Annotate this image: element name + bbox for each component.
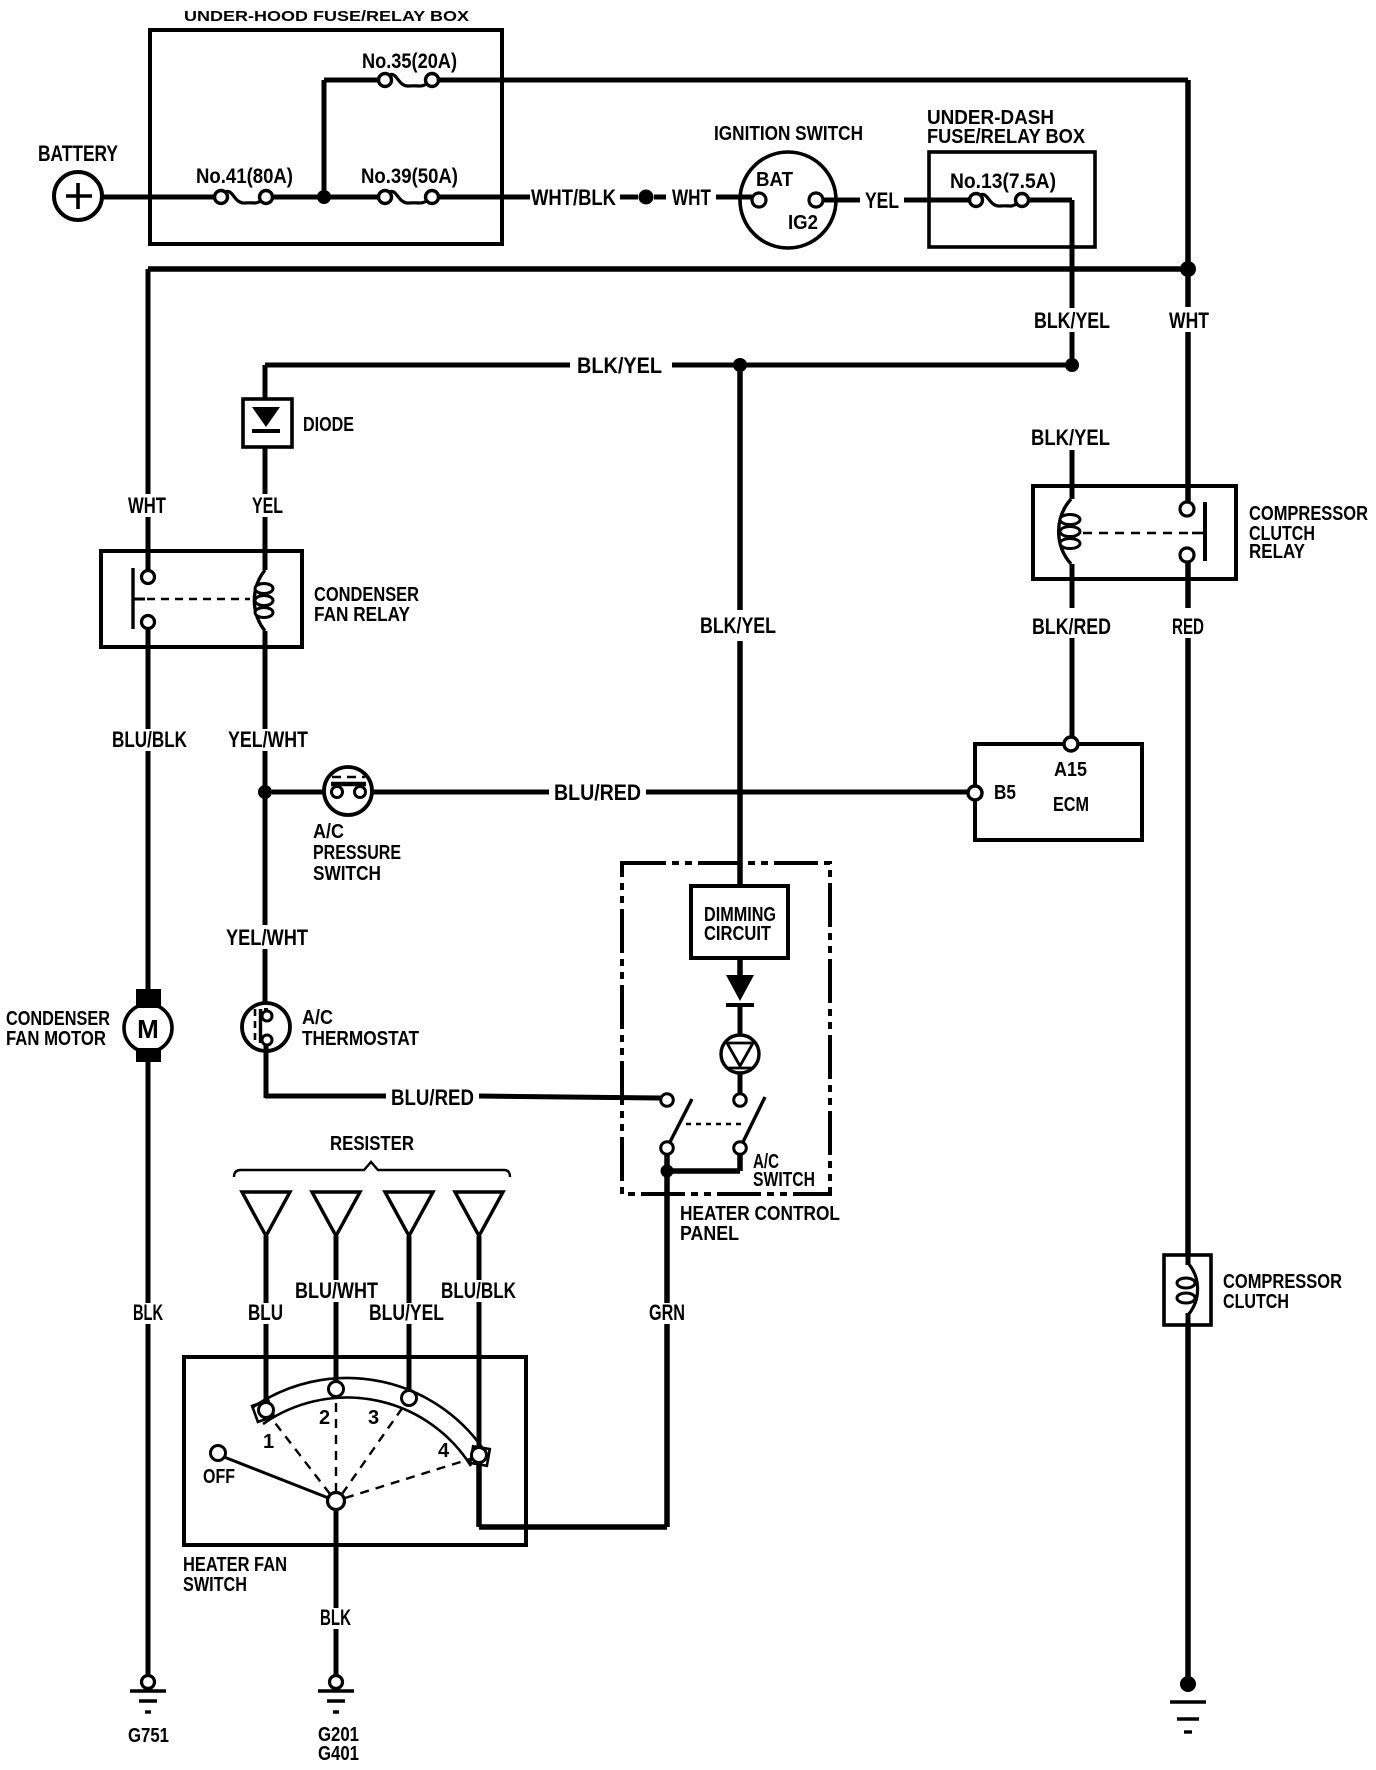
- junction A/C switch out: [661, 1165, 674, 1178]
- wire WHT to ignition switch: [716, 195, 752, 200]
- wire BLK/YEL down from fuse No.13: [1070, 200, 1075, 308]
- svg-text:COMPRESSOR: COMPRESSOR: [1223, 1271, 1342, 1293]
- fuse No.41(80A): [215, 191, 228, 204]
- wire BLU/WHT upper: [334, 1236, 339, 1280]
- svg-text:BAT: BAT: [756, 169, 793, 191]
- wire pivot down: [334, 1509, 339, 1545]
- main bus wire from left riser to WHT riser: [148, 266, 1188, 272]
- wire fuse No.13 to corner: [1028, 198, 1072, 203]
- wire stub out of compressor clutch coil: [1186, 1313, 1191, 1325]
- wire BLK to ground G751: [146, 1324, 151, 1676]
- thermostat terminal top: [262, 1011, 272, 1021]
- A/C switch terminal top left: [661, 1094, 674, 1107]
- terminal IG2: [809, 193, 823, 207]
- svg-text:IGNITION SWITCH: IGNITION SWITCH: [714, 123, 863, 145]
- rotary arc outer: [252, 1378, 488, 1456]
- wire BLU/BLK to condenser fan motor: [146, 751, 151, 990]
- wire BLU/BLK upper: [477, 1236, 482, 1280]
- wire YEL into condenser fan relay: [263, 517, 268, 570]
- wire diode to lamp: [738, 1005, 743, 1036]
- wire diode to YEL label: [263, 447, 268, 494]
- svg-text:YEL/WHT: YEL/WHT: [226, 925, 308, 950]
- compressor clutch relay coil: [1059, 499, 1071, 564]
- ECM: [975, 744, 1142, 840]
- terminal relay switch top (WHT): [1180, 502, 1194, 516]
- svg-text:BLK/RED: BLK/RED: [1032, 614, 1111, 639]
- resistor triangle 3: [385, 1192, 433, 1236]
- wire BLU/RED pressure switch to ECM B5: [272, 790, 330, 795]
- wire BLU/YEL to contact 3: [407, 1324, 412, 1391]
- fuse No.13(7.5A): [970, 194, 983, 207]
- dimming circuit box: [691, 886, 788, 958]
- svg-text:No.35(20A): No.35(20A): [362, 50, 457, 73]
- wire RED to compressor clutch: [1185, 638, 1191, 1255]
- wire WHT into condenser fan relay: [146, 517, 151, 571]
- svg-text:BLK/YEL: BLK/YEL: [1034, 308, 1110, 333]
- svg-text:WHT: WHT: [128, 493, 166, 518]
- relay actuation dashed link: [1083, 532, 1191, 535]
- svg-text:BLK/YEL: BLK/YEL: [700, 613, 776, 638]
- illumination lamp: [721, 1035, 759, 1073]
- svg-text:UNDER-HOOD FUSE/RELAY BOX: UNDER-HOOD FUSE/RELAY BOX: [184, 8, 469, 25]
- relay fixed contact bar: [131, 568, 134, 629]
- pivot contact: [328, 1493, 345, 1510]
- svg-text:SWITCH: SWITCH: [753, 1169, 815, 1191]
- wire thermostat down: [264, 1045, 269, 1098]
- svg-text:PANEL: PANEL: [680, 1223, 739, 1245]
- terminal BAT: [752, 193, 766, 207]
- wire BLK/YEL horizontal: [265, 363, 570, 368]
- svg-text:3: 3: [368, 1407, 379, 1429]
- wire BLK/RED to ECM A15: [1070, 638, 1075, 737]
- heater control panel (dash-dot border): [622, 863, 830, 1194]
- terminal relay switch bottom (RED): [1180, 548, 1194, 562]
- svg-text:BLU/RED: BLU/RED: [554, 780, 641, 805]
- A/C switch terminal top right: [734, 1094, 747, 1107]
- wire BLU to contact 1: [264, 1324, 269, 1403]
- A/C switch terminal bottom right: [734, 1142, 747, 1155]
- svg-text:BLU/YEL: BLU/YEL: [369, 1300, 444, 1325]
- rotary arc inner: [263, 1398, 471, 1466]
- condenser fan relay: [101, 551, 302, 647]
- wire YEL/WHT lower part1: [263, 792, 268, 925]
- wire YEL/WHT to thermostat: [263, 949, 268, 1012]
- svg-text:BLK/YEL: BLK/YEL: [1031, 425, 1110, 450]
- svg-text:BLU/BLK: BLU/BLK: [441, 1278, 516, 1303]
- svg-text:PRESSURE: PRESSURE: [313, 842, 401, 864]
- wire YEL/WHT upper: [263, 647, 268, 729]
- svg-text:RELAY: RELAY: [1249, 541, 1306, 563]
- wire stub left of connector: [620, 195, 638, 200]
- wire BLK/YEL center riser upper: [737, 365, 743, 610]
- wire GRN lower: [664, 1324, 670, 1527]
- svg-text:2: 2: [319, 1407, 330, 1429]
- wire BLU/BLK to contact 4: [477, 1302, 482, 1450]
- condenser fan relay coil: [254, 570, 265, 631]
- wire A/C switch left down: [664, 1153, 670, 1171]
- relay fixed contact bar: [1203, 502, 1207, 561]
- svg-text:BLU/RED: BLU/RED: [391, 1085, 474, 1110]
- ground (compressor clutch): [1180, 1676, 1196, 1692]
- wire BLU/RED thermostat to A/C switch: [265, 1094, 386, 1099]
- ground G751: [142, 1676, 155, 1689]
- wire to fuse No.35: [324, 78, 385, 83]
- svg-text:CIRCUIT: CIRCUIT: [704, 923, 771, 945]
- wire dimming to diode: [737, 958, 743, 977]
- wire GRN upper: [664, 1171, 670, 1303]
- wire fuse No.35 to right (WHT feed top): [432, 78, 1188, 83]
- svg-text:A15: A15: [1054, 759, 1087, 781]
- wire WHT to compressor clutch relay: [1185, 332, 1191, 502]
- wire GRN up to contact 4: [476, 1460, 482, 1527]
- under-dash fuse/relay box: [929, 152, 1095, 247]
- svg-text:4: 4: [438, 1440, 450, 1462]
- wire BLK/YEL to junction: [1070, 332, 1075, 365]
- thermostat inner wire top: [264, 1008, 268, 1014]
- wire BLU/WHT to contact 2: [334, 1302, 339, 1382]
- arc end diamond 1: [252, 1400, 274, 1422]
- wire GRN horizontal into heater fan switch: [479, 1524, 667, 1530]
- fuse No.35(20A): [379, 74, 392, 87]
- wire coil stub bottom: [1070, 564, 1075, 579]
- terminal relay switch bottom: [142, 616, 155, 629]
- A/C switch terminal bottom left: [661, 1142, 674, 1155]
- junction BLK/YEL / center riser: [733, 358, 747, 372]
- switch blade right: [743, 1097, 765, 1142]
- wire IG2 to YEL: [823, 198, 860, 203]
- resistor triangle 2: [312, 1192, 360, 1236]
- compressor clutch relay: [1033, 486, 1236, 579]
- wire stub right of connector: [654, 195, 666, 200]
- connector dot WHT/BLK-WHT: [639, 190, 654, 205]
- svg-text:M: M: [137, 1014, 159, 1044]
- wire relay to BLU/BLK label: [146, 629, 151, 729]
- wire WHT riser top: [1185, 80, 1191, 307]
- fuse No.39(50A): [379, 191, 392, 204]
- diode (panel): [726, 975, 754, 1001]
- wire BLK/YEL into relay coil: [1070, 450, 1075, 499]
- ground G201/G401: [330, 1676, 343, 1689]
- pressure switch terminal left: [332, 787, 343, 798]
- wire stub into compressor clutch coil: [1186, 1255, 1191, 1265]
- contact 2: [329, 1382, 344, 1397]
- svg-text:G751: G751: [128, 1725, 169, 1747]
- wire A/C switch right down: [737, 1153, 743, 1171]
- switch blade to OFF: [224, 1457, 331, 1499]
- svg-text:WHT: WHT: [1169, 308, 1209, 333]
- wire down to diode: [263, 365, 268, 399]
- A/C pressure switch: [324, 767, 372, 815]
- svg-text:YEL: YEL: [865, 188, 899, 213]
- wire compressor clutch to ground: [1185, 1325, 1191, 1678]
- wire fuse No.39 out to WHT/BLK: [432, 195, 530, 200]
- svg-text:No.13(7.5A): No.13(7.5A): [950, 170, 1056, 193]
- wire BLK from motor: [146, 1062, 151, 1303]
- svg-text:BLU: BLU: [248, 1300, 283, 1325]
- heater fan switch box: [184, 1357, 526, 1545]
- junction YEL/WHT / pressure switch: [258, 785, 272, 799]
- wire BLK to ground G201: [334, 1629, 339, 1676]
- wire A/C switch bottom link: [664, 1168, 740, 1174]
- wire battery to fuse No.41: [100, 195, 221, 200]
- svg-text:ECM: ECM: [1053, 794, 1089, 816]
- svg-text:BLU/WHT: BLU/WHT: [295, 1278, 378, 1303]
- svg-text:YEL/WHT: YEL/WHT: [228, 727, 308, 752]
- svg-text:A/C: A/C: [302, 1007, 333, 1029]
- svg-text:WHT: WHT: [672, 185, 711, 210]
- arc end diamond 4: [470, 1446, 490, 1466]
- svg-text:BATTERY: BATTERY: [38, 141, 118, 166]
- contact 4: [472, 1448, 487, 1463]
- svg-text:BLK: BLK: [133, 1300, 163, 1325]
- switch blade left: [670, 1099, 692, 1142]
- wire junction up to fuse No.35: [322, 80, 327, 197]
- svg-text:COMPRESSOR: COMPRESSOR: [1249, 503, 1368, 525]
- terminal B5: [968, 786, 982, 800]
- wire YEL into under-dash box: [904, 198, 976, 203]
- contact OFF: [211, 1446, 226, 1461]
- svg-text:1: 1: [263, 1431, 274, 1453]
- svg-text:CONDENSER: CONDENSER: [314, 584, 419, 606]
- svg-text:CONDENSER: CONDENSER: [6, 1008, 110, 1030]
- wire BLU/YEL upper: [407, 1236, 412, 1303]
- junction fuse feed: [317, 190, 331, 204]
- svg-text:RED: RED: [1172, 614, 1204, 639]
- svg-text:A/C: A/C: [313, 821, 344, 843]
- svg-text:GRN: GRN: [649, 1300, 685, 1325]
- wire BLK/RED upper stub: [1070, 579, 1075, 608]
- svg-text:SWITCH: SWITCH: [313, 863, 381, 885]
- wire lamp to A/C switch: [738, 1073, 743, 1094]
- terminal A15: [1064, 737, 1078, 751]
- wire YEL/WHT to junction: [263, 751, 268, 792]
- wire coil stub top: [263, 551, 268, 570]
- svg-text:G401: G401: [318, 1743, 359, 1765]
- wire coil stub bottom: [263, 631, 268, 647]
- svg-text:CLUTCH: CLUTCH: [1223, 1291, 1289, 1313]
- under-hood fuse/relay box: [150, 30, 502, 244]
- switch link dashed: [686, 1123, 742, 1126]
- svg-text:RESISTER: RESISTER: [330, 1133, 414, 1155]
- svg-text:IG2: IG2: [788, 212, 818, 234]
- svg-text:DIODE: DIODE: [303, 414, 354, 436]
- svg-text:FAN RELAY: FAN RELAY: [314, 604, 411, 626]
- brace: [234, 1162, 510, 1177]
- battery: [54, 172, 102, 220]
- svg-text:BLU/BLK: BLU/BLK: [112, 727, 187, 752]
- svg-text:OFF: OFF: [203, 1466, 235, 1488]
- pressure switch terminal right: [355, 787, 366, 798]
- wire left riser from bus: [146, 269, 151, 494]
- wire BLU upper: [264, 1236, 269, 1303]
- junction bus / WHT riser: [1180, 261, 1196, 277]
- ignition switch: [740, 152, 836, 248]
- svg-text:BLK/YEL: BLK/YEL: [577, 353, 662, 378]
- svg-text:No.41(80A): No.41(80A): [196, 165, 293, 188]
- wire RED upper stub: [1185, 562, 1191, 608]
- svg-text:HEATER FAN: HEATER FAN: [183, 1554, 287, 1576]
- svg-text:B5: B5: [994, 782, 1016, 804]
- svg-text:THERMOSTAT: THERMOSTAT: [302, 1028, 419, 1050]
- resistor triangle 1: [242, 1192, 290, 1236]
- svg-text:SWITCH: SWITCH: [183, 1574, 247, 1596]
- svg-text:HEATER CONTROL: HEATER CONTROL: [680, 1203, 840, 1225]
- relay actuation dashed link: [147, 598, 250, 601]
- compressor clutch: [1164, 1255, 1211, 1325]
- svg-text:FUSE/RELAY BOX: FUSE/RELAY BOX: [927, 126, 1086, 148]
- contact 3: [402, 1391, 417, 1406]
- thermostat terminal bottom: [262, 1035, 272, 1045]
- dashed spokes: [272, 1419, 330, 1494]
- svg-text:WHT/BLK: WHT/BLK: [531, 185, 616, 210]
- diode: [243, 399, 292, 447]
- svg-text:BLK: BLK: [320, 1605, 351, 1630]
- resistor triangle 4: [455, 1192, 503, 1236]
- wire BLK lower: [334, 1545, 339, 1608]
- wire fuse No.41 to fuse No.39: [266, 195, 385, 200]
- svg-text:FAN MOTOR: FAN MOTOR: [6, 1028, 106, 1050]
- condenser fan motor: [124, 1004, 172, 1052]
- svg-text:YEL: YEL: [252, 493, 283, 518]
- wire BLK/YEL center riser lower: [737, 641, 743, 886]
- contact 1: [259, 1403, 274, 1418]
- terminal relay switch top: [142, 571, 155, 584]
- svg-text:No.39(50A): No.39(50A): [361, 165, 458, 188]
- junction BLK/YEL / right BLK-YEL riser: [1065, 358, 1079, 372]
- A/C thermostat: [242, 1003, 290, 1051]
